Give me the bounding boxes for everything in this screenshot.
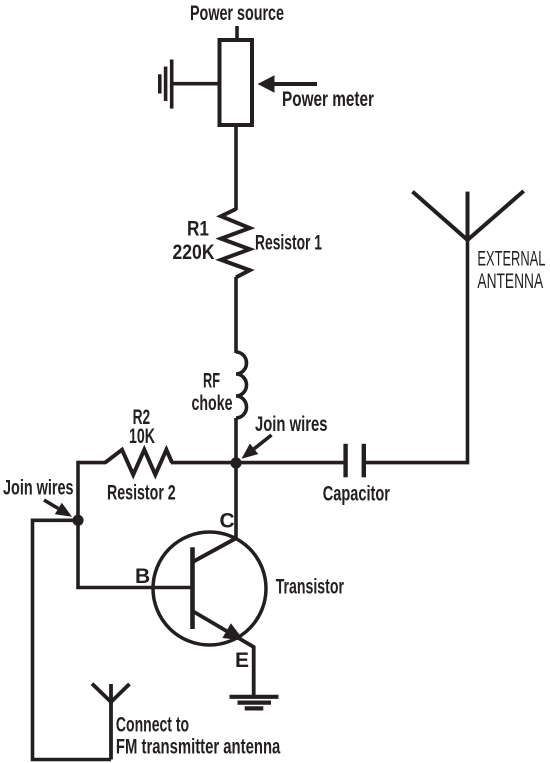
capacitor C1 [346, 444, 364, 478]
wire: R2 to capacitor [171, 461, 344, 465]
ground (emitter) [230, 697, 279, 709]
svg-text:RF: RF [203, 369, 220, 392]
junction node (center) [230, 457, 241, 468]
svg-text:B: B [135, 565, 150, 588]
svg-text:Resistor 1: Resistor 1 [255, 232, 322, 255]
wire: R2 left lead [78, 461, 106, 465]
arrow: power meter pointer [258, 75, 318, 92]
resistor R1 [221, 209, 250, 277]
svg-text:E: E [235, 649, 249, 672]
svg-text:ANTENNA: ANTENNA [477, 270, 543, 293]
svg-text:Connect to: Connect to [116, 714, 189, 737]
resistor R2 [105, 450, 172, 475]
svg-text:220K: 220K [173, 241, 215, 264]
power source block [220, 40, 253, 125]
ground (power source side) [160, 60, 172, 109]
transistor Q1 base bar [190, 547, 195, 629]
wire: R1 to RF choke [234, 277, 238, 353]
wire: power source to R1 [234, 125, 238, 210]
wire: left junction to FM antenna [33, 520, 112, 759]
antenna: FM transmitter [92, 684, 130, 760]
svg-text:Power meter: Power meter [282, 88, 374, 111]
junction node (left) [72, 515, 83, 526]
svg-text:R1: R1 [187, 218, 209, 241]
svg-text:Transistor: Transistor [276, 576, 344, 599]
svg-text:Capacitor: Capacitor [323, 483, 390, 506]
transistor Q1 emitter arrow [222, 623, 244, 640]
wire: R2 corner down to transistor base [78, 461, 194, 588]
svg-text:10K: 10K [129, 425, 155, 448]
svg-text:C: C [220, 509, 235, 532]
antenna: external [413, 191, 524, 240]
svg-text:Join wires: Join wires [3, 477, 74, 500]
inductor: RF choke [236, 352, 247, 418]
svg-text:FM transmitter antenna: FM transmitter antenna [116, 736, 281, 759]
wire: ground to power source [173, 82, 220, 86]
wire: RF choke to junction [234, 418, 238, 463]
arrow: join wires (center) [242, 435, 272, 459]
transistor Q1 emitter [193, 611, 254, 697]
svg-text:choke: choke [192, 392, 233, 415]
wire: junction to collector [234, 463, 238, 538]
svg-text:Power source: Power source [190, 2, 284, 25]
wire: power source lead top [235, 26, 239, 42]
svg-text:EXTERNAL: EXTERNAL [477, 248, 545, 271]
arrow: join wires (left) [44, 500, 72, 517]
svg-text:Resistor 2: Resistor 2 [107, 482, 176, 505]
wire: capacitor to antenna [366, 240, 468, 463]
svg-text:Join wires: Join wires [255, 413, 328, 436]
transistor Q1 body [153, 532, 266, 645]
transistor Q1 collector [193, 538, 237, 562]
